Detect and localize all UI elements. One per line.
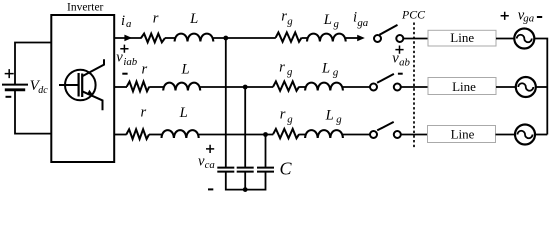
wire cap drop phase c bbox=[265, 135, 267, 168]
inverter box bbox=[51, 15, 114, 162]
svg-text:C: C bbox=[279, 158, 292, 178]
label + vca - bbox=[206, 145, 214, 153]
svg-text:ca: ca bbox=[205, 159, 215, 171]
switch row1 bbox=[374, 35, 381, 42]
svg-text:ga: ga bbox=[357, 17, 368, 29]
svg-text:L: L bbox=[181, 62, 190, 78]
capacitor Cb bbox=[237, 168, 254, 172]
label + v_ga - bbox=[501, 12, 509, 20]
battery Vdc bbox=[2, 43, 52, 134]
switch row3 bbox=[370, 131, 377, 138]
wire Line to source row3 bbox=[496, 134, 516, 136]
wire L to r_g row2 bbox=[200, 86, 273, 88]
resistor r row2 bbox=[127, 82, 150, 92]
wire battery top bbox=[15, 43, 52, 85]
wire inverter to r row2 bbox=[114, 86, 127, 88]
svg-text:r: r bbox=[140, 105, 146, 121]
label battery - bbox=[6, 96, 12, 98]
wire source to bus row1 bbox=[534, 39, 547, 135]
arrow i_a bbox=[124, 35, 132, 42]
wire + arrow i_ga bbox=[346, 37, 358, 39]
resistor r_g row1 bbox=[276, 32, 302, 41]
wire to switch row2 bbox=[343, 86, 370, 88]
svg-text:v: v bbox=[116, 49, 123, 65]
svg-text:g: g bbox=[287, 15, 293, 27]
transistor IGBT symbol bbox=[59, 59, 104, 110]
wire L to r_g row3 bbox=[199, 134, 274, 136]
switch row2 bbox=[370, 84, 377, 91]
wire r to L row3 bbox=[149, 134, 162, 136]
svg-text:i: i bbox=[121, 13, 125, 29]
wire L to r_g row1 bbox=[213, 37, 275, 39]
battery short plate bbox=[5, 88, 25, 91]
source row2 bbox=[516, 77, 536, 97]
wire inverter to r row3 bbox=[114, 134, 126, 136]
svg-text:r: r bbox=[280, 107, 286, 123]
svg-text:Line: Line bbox=[450, 30, 474, 45]
svg-text:L: L bbox=[321, 60, 330, 76]
wire row1 bbox=[302, 37, 308, 39]
wire switch to Line row2 bbox=[401, 86, 428, 88]
svg-text:r: r bbox=[153, 11, 159, 27]
wire cap bottoms bbox=[226, 172, 266, 190]
wire r to L row1 bbox=[165, 37, 175, 39]
inductor L_g row1 bbox=[307, 34, 346, 42]
source row3 bbox=[515, 125, 535, 145]
label + v_iab - bbox=[120, 45, 128, 53]
inductor L_g row3 bbox=[305, 130, 343, 138]
svg-text:g: g bbox=[334, 18, 340, 30]
svg-text:L: L bbox=[325, 108, 334, 124]
inductor L row1 bbox=[175, 34, 214, 42]
svg-text:PCC: PCC bbox=[401, 8, 425, 22]
svg-text:ga: ga bbox=[523, 13, 534, 25]
resistor r_g row2 bbox=[273, 81, 299, 90]
resistor r row3 bbox=[126, 129, 149, 139]
wire r to L row2 bbox=[149, 86, 163, 88]
svg-text:Line: Line bbox=[451, 126, 475, 141]
wire row3 bbox=[299, 134, 305, 136]
svg-text:r: r bbox=[141, 61, 147, 77]
Line box row1 bbox=[428, 30, 496, 46]
inductor L row3 bbox=[162, 130, 199, 138]
wire Line to source row1 bbox=[496, 38, 514, 40]
svg-text:L: L bbox=[323, 12, 332, 28]
node row3 bbox=[263, 132, 268, 137]
PCC dotted line bbox=[413, 23, 415, 149]
capacitor Cc bbox=[257, 168, 274, 172]
node cap bus bbox=[243, 187, 248, 192]
Line box row3 bbox=[428, 126, 496, 143]
inductor L_g row2 bbox=[305, 83, 343, 91]
svg-text:Line: Line bbox=[452, 79, 476, 94]
label + vab - bbox=[395, 46, 403, 54]
svg-text:ab: ab bbox=[399, 57, 410, 69]
wire source to bus row2 bbox=[536, 86, 548, 88]
svg-text:Inverter: Inverter bbox=[67, 1, 104, 13]
label battery + bbox=[5, 69, 14, 78]
wire switch to Line row1 bbox=[403, 38, 428, 40]
wire row2 bbox=[299, 86, 305, 88]
svg-text:dc: dc bbox=[38, 85, 48, 96]
svg-text:g: g bbox=[287, 66, 293, 78]
svg-text:L: L bbox=[179, 105, 188, 121]
node row2 bbox=[243, 85, 248, 90]
svg-text:L: L bbox=[189, 11, 198, 27]
wire Line to source row2 bbox=[496, 86, 516, 88]
Line box row2 bbox=[428, 78, 496, 95]
source v_ga row1 bbox=[514, 29, 534, 49]
svg-text:r: r bbox=[279, 60, 285, 76]
capacitor Ca bbox=[217, 168, 234, 172]
svg-text:g: g bbox=[336, 114, 342, 126]
inductor L row2 bbox=[163, 83, 200, 91]
wire to switch row3 bbox=[343, 134, 370, 136]
resistor r_g row3 bbox=[273, 129, 299, 138]
node row1 bbox=[223, 36, 228, 41]
svg-text:iab: iab bbox=[123, 56, 137, 68]
wire cap drop phase a bbox=[225, 38, 227, 167]
wire source to bus row3 bbox=[535, 134, 547, 136]
svg-text:g: g bbox=[287, 114, 293, 126]
wire inverter to resistor r bbox=[114, 37, 141, 39]
battery long plate bbox=[2, 84, 28, 86]
svg-text:g: g bbox=[333, 67, 339, 79]
resistor r row1 bbox=[141, 34, 165, 43]
wire cap drop phase b bbox=[244, 87, 246, 167]
wire battery bottom bbox=[15, 90, 52, 134]
svg-text:a: a bbox=[126, 18, 131, 30]
wire switch to Line row3 bbox=[401, 134, 428, 136]
